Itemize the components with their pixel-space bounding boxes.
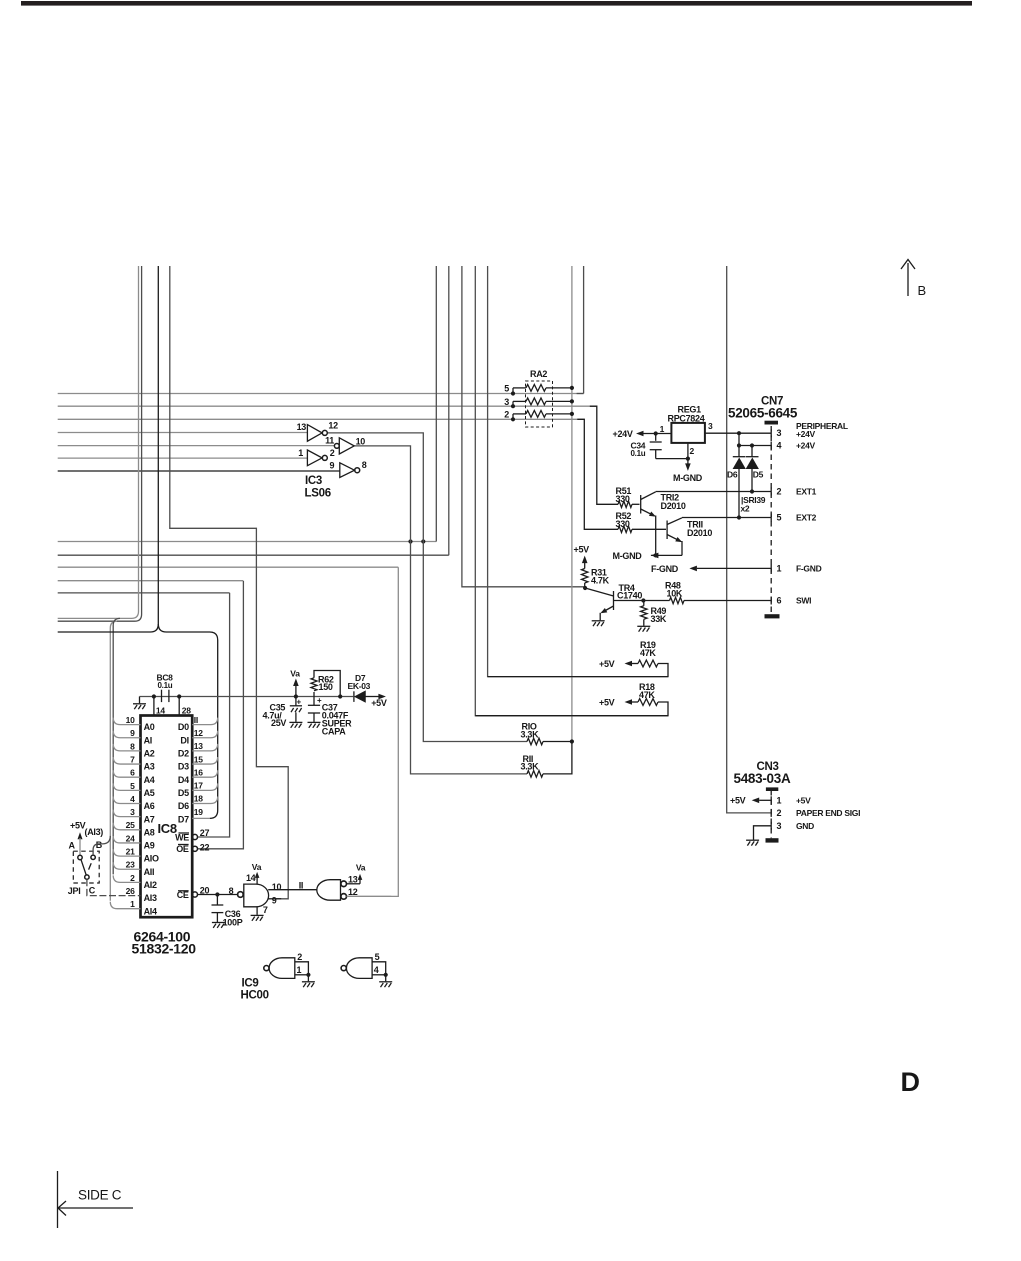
wire WE net vertical <box>197 593 229 837</box>
svg-text:11: 11 <box>325 435 334 445</box>
wire vertical x170 to corner y528 <box>170 266 288 899</box>
op-amp IC3 inverter A (pins 13-12) <box>307 425 322 442</box>
svg-text:6: 6 <box>777 596 782 606</box>
svg-text:7: 7 <box>263 905 268 915</box>
svg-text:II: II <box>194 715 198 725</box>
svg-text:2: 2 <box>777 808 782 818</box>
svg-text:16: 16 <box>194 767 203 777</box>
svg-text:5483-03A: 5483-03A <box>734 771 791 786</box>
resistor R31 4.7K <box>582 569 588 584</box>
svg-text:C: C <box>89 885 96 895</box>
svg-text:3: 3 <box>708 421 713 431</box>
wire JP1 C to IC8 pin 26 (A13) <box>87 879 141 895</box>
ground at BC8 <box>139 697 141 704</box>
diode D5 <box>751 446 753 457</box>
svg-text:A4: A4 <box>144 775 155 785</box>
TR4 emitter ground <box>599 613 601 621</box>
wire gate2 pin12 vertical <box>347 567 399 896</box>
svg-text:C1740: C1740 <box>617 591 642 601</box>
svg-text:F-GND: F-GND <box>651 564 679 574</box>
svg-text:D2: D2 <box>178 749 189 759</box>
svg-text:1: 1 <box>298 448 303 458</box>
svg-text:D2010: D2010 <box>661 501 686 511</box>
svg-text:18: 18 <box>194 794 203 804</box>
wire IC3 pin13 input wire <box>58 432 308 434</box>
wire node 3 input row <box>58 405 597 407</box>
svg-text:+24V: +24V <box>613 429 633 439</box>
capacitor C36 100P <box>216 895 218 905</box>
svg-text:RPC7824: RPC7824 <box>668 413 705 423</box>
wire address bus branch (gray) down to IC8 A14 <box>110 621 117 901</box>
svg-text:3: 3 <box>777 821 782 831</box>
svg-text:2: 2 <box>130 873 135 883</box>
CN7 pin 2 <box>770 488 772 496</box>
node B sheet reference arrow <box>907 263 909 296</box>
wire IC3 pin1 input wire <box>58 457 308 459</box>
wire node 5 input row <box>58 393 584 395</box>
svg-text:+24V: +24V <box>796 429 816 439</box>
svg-text:Va: Va <box>252 862 262 872</box>
svg-text:F-GND: F-GND <box>796 563 822 573</box>
svg-text:+5V: +5V <box>371 698 387 708</box>
svg-text:JPI: JPI <box>68 886 81 896</box>
svg-text:0.1u: 0.1u <box>631 449 646 458</box>
svg-text:GND: GND <box>796 821 814 831</box>
svg-text:5: 5 <box>130 781 135 791</box>
svg-text:D0: D0 <box>178 722 189 732</box>
CN3 pin 3 <box>770 822 772 830</box>
svg-text:Va: Va <box>356 862 366 872</box>
svg-text:D2010: D2010 <box>687 528 712 538</box>
svg-text:Va: Va <box>290 668 300 678</box>
svg-text:0.1u: 0.1u <box>158 681 173 690</box>
svg-text:2: 2 <box>297 952 302 962</box>
wire R48 to CN7 pin6 SWI <box>684 600 771 602</box>
wire REG1 pin3 to CN7 pin3 <box>705 432 771 434</box>
svg-text:12: 12 <box>194 728 203 738</box>
CN7 pin 3 <box>770 429 772 437</box>
svg-text:D6: D6 <box>727 470 738 480</box>
wire IC3 pin10 output to R11 feed <box>354 446 527 774</box>
svg-text:D3: D3 <box>178 762 189 772</box>
svg-text:HC00: HC00 <box>241 989 269 1001</box>
svg-text:3.3K: 3.3K <box>521 762 540 772</box>
svg-text:7: 7 <box>130 754 135 764</box>
wire R11 up to rail x572 <box>543 742 572 774</box>
svg-text:13: 13 <box>348 874 358 884</box>
wire +5V supply rail <box>140 696 354 698</box>
wire gate2 pin12 to vertical <box>347 895 392 897</box>
logic gate IC9 gate1 (pins 8,9,10) <box>238 892 244 898</box>
logic gate IC9 gate4 (pins 4,5) facing left <box>341 966 346 971</box>
wire TR12 emitter to M-GND <box>655 516 657 556</box>
svg-text:1: 1 <box>660 424 665 434</box>
svg-text:A2: A2 <box>144 749 155 759</box>
svg-text:28: 28 <box>182 705 191 715</box>
svg-text:+5V: +5V <box>574 545 590 555</box>
svg-text:4: 4 <box>777 441 782 451</box>
transistor TR11 D2C10 <box>666 521 668 540</box>
svg-text:+5V: +5V <box>599 698 615 708</box>
wire node 5 row corner up <box>577 393 584 395</box>
svg-text:8: 8 <box>130 741 135 751</box>
svg-text:9: 9 <box>272 896 277 906</box>
svg-text:22: 22 <box>200 842 210 852</box>
wire bus row to vertical x436 <box>58 541 437 543</box>
svg-text:13: 13 <box>297 422 307 432</box>
svg-text:3: 3 <box>130 807 135 817</box>
svg-text:150: 150 <box>319 682 333 692</box>
svg-text:II: II <box>299 880 303 890</box>
svg-text:2: 2 <box>330 448 335 458</box>
svg-text:13: 13 <box>194 741 203 751</box>
svg-text:IC9: IC9 <box>242 977 259 989</box>
svg-text:D5: D5 <box>753 470 764 480</box>
svg-text:AII: AII <box>144 867 155 877</box>
gate3 ground <box>307 975 309 982</box>
svg-text:D6: D6 <box>178 801 189 811</box>
svg-text:12: 12 <box>348 887 358 897</box>
CN7 pin 1 <box>770 564 772 572</box>
gate2 pin13 Va stub <box>347 883 361 885</box>
svg-text:5: 5 <box>375 952 380 962</box>
svg-text:14: 14 <box>246 873 256 883</box>
op-amp IC3 inverter C (pins 1-2) <box>307 450 322 466</box>
wire OE net vertical <box>197 581 243 849</box>
wire EXT1 row from TR12 collector <box>656 491 772 493</box>
wire vertical x475 from top to R18 row <box>475 266 668 716</box>
CN7 pin 4 <box>770 442 772 450</box>
svg-text:CE: CE <box>177 890 189 900</box>
svg-text:RA2: RA2 <box>530 369 547 379</box>
svg-text:3: 3 <box>777 428 782 438</box>
svg-text:25V: 25V <box>271 718 286 728</box>
CN3 pin3 ground <box>754 826 772 840</box>
svg-text:(AI3): (AI3) <box>85 827 104 837</box>
svg-text:1: 1 <box>777 795 782 805</box>
svg-text:8: 8 <box>362 460 367 470</box>
svg-text:10: 10 <box>356 436 366 446</box>
svg-text:EK-03: EK-03 <box>348 681 371 691</box>
wire node 2 row corner down to R52 <box>577 419 618 529</box>
wire long vertical x727 to CN3 pin2 <box>727 266 772 813</box>
wire bus row arc to vertical x142 <box>58 266 142 621</box>
wire bus row to gate2 pin12 vertical <box>58 566 399 568</box>
CN3 pin 2 <box>770 809 772 817</box>
wire TR11 emitter down to M-GND row <box>681 541 683 555</box>
svg-text:M-GND: M-GND <box>613 551 643 561</box>
svg-text:x2: x2 <box>741 504 750 514</box>
svg-text:B: B <box>918 283 926 298</box>
svg-text:51832-120: 51832-120 <box>132 941 197 957</box>
svg-text:5: 5 <box>777 513 782 523</box>
svg-text:A8: A8 <box>144 827 155 837</box>
svg-text:4.7K: 4.7K <box>591 575 610 585</box>
IC8 pin 28 stub <box>178 697 180 716</box>
svg-text:1: 1 <box>297 965 302 975</box>
wire vertical x436 from top <box>435 266 437 542</box>
svg-text:SIDE C: SIDE C <box>78 1188 122 1203</box>
wire node 3 row corner down to R51 <box>590 406 618 504</box>
diode D6 <box>738 433 740 456</box>
node SIDE C reference arrow <box>57 1171 59 1228</box>
svg-text:A3: A3 <box>144 762 155 772</box>
svg-text:+5V: +5V <box>599 659 615 669</box>
svg-text:1: 1 <box>777 563 782 573</box>
svg-text:25: 25 <box>126 820 135 830</box>
svg-text:10: 10 <box>126 715 135 725</box>
wire CN7 pin4 row <box>739 445 771 447</box>
wire IC3 pin11 input wire <box>58 445 335 447</box>
svg-text:21: 21 <box>126 847 135 857</box>
IC8 pin 14 stub <box>153 697 155 716</box>
svg-text:EXT2: EXT2 <box>796 513 817 523</box>
svg-text:+5V: +5V <box>730 795 746 805</box>
wire +24V to REG1 pin1 <box>644 433 672 435</box>
svg-text:27: 27 <box>200 828 210 838</box>
wire bus row arc to vertical x138 <box>58 266 139 618</box>
svg-text:DI: DI <box>180 735 188 745</box>
wire bus row to vertical x449 <box>58 554 449 556</box>
wire REG1 pin2 down to M-GND <box>687 443 689 459</box>
gate4 ground <box>385 975 387 982</box>
svg-text:17: 17 <box>194 781 203 791</box>
svg-text:+24V: +24V <box>796 441 816 451</box>
svg-text:2: 2 <box>777 487 782 497</box>
transistor TR12 D2010 <box>640 495 642 514</box>
wire IC3 pin9 input wire <box>58 470 340 472</box>
svg-text:A0: A0 <box>144 722 155 732</box>
svg-text:AI2: AI2 <box>144 880 157 890</box>
gate1 pin7 ground stub <box>256 907 258 915</box>
svg-text:3: 3 <box>504 397 509 407</box>
wire vertical x488 from top to R19 row <box>488 266 668 677</box>
svg-text:A: A <box>69 841 76 851</box>
logic gate IC9 gate2 (pins 11,12,13) facing left <box>317 880 341 901</box>
svg-text:D7: D7 <box>178 814 189 824</box>
wire bus row to OE vertical <box>58 580 243 582</box>
svg-text:5: 5 <box>504 384 509 394</box>
wire bus row to WE vertical <box>58 592 230 594</box>
svg-text:100P: 100P <box>223 918 243 928</box>
svg-text:IC8: IC8 <box>158 821 177 836</box>
wire address bus branch (dark) down to IC8 A12 <box>113 618 120 874</box>
CN7 pin 6 <box>770 597 772 605</box>
svg-text:23: 23 <box>126 860 135 870</box>
svg-text:A9: A9 <box>144 841 155 851</box>
svg-text:4: 4 <box>130 794 135 804</box>
svg-text:AIO: AIO <box>144 854 159 864</box>
svg-text:52065-6645: 52065-6645 <box>728 406 798 421</box>
svg-text:D: D <box>901 1067 920 1097</box>
wire IC3 pin12 output to R10 feed <box>327 433 527 742</box>
CN3 pin 1 <box>770 796 772 804</box>
svg-text:26: 26 <box>126 886 135 896</box>
wire vertical x572 pull-up rail <box>571 266 573 742</box>
wire thick data bus row, split to vertical x158 and D-bus <box>58 266 159 632</box>
wire JP1 B to address bus <box>93 836 110 855</box>
wire C34 to REG1 pin2 node <box>656 458 688 460</box>
svg-text:24: 24 <box>126 833 135 843</box>
svg-text:19: 19 <box>194 807 203 817</box>
svg-text:CAPA: CAPA <box>322 727 346 737</box>
svg-text:A6: A6 <box>144 801 155 811</box>
svg-text:A7: A7 <box>144 814 155 824</box>
memory IC8 6264-100 / 51832-120 <box>141 716 193 918</box>
op-amp IC3 inverter D (pins 9-8) <box>340 463 355 478</box>
svg-text:PAPER END SIGI: PAPER END SIGI <box>796 808 860 818</box>
svg-text:SWI: SWI <box>796 596 811 606</box>
svg-text:+5V: +5V <box>70 820 86 830</box>
svg-text:B: B <box>96 840 103 850</box>
svg-text:8: 8 <box>229 886 234 896</box>
svg-text:AI: AI <box>144 735 152 745</box>
CN7 pin 5 <box>770 514 772 522</box>
wire vertical x462 from top to R31 feed <box>462 266 585 587</box>
wire CE to gate1 input <box>197 894 237 896</box>
svg-text:IC3: IC3 <box>305 475 322 487</box>
wire vertical x584 from node 5 row to top <box>583 266 585 394</box>
svg-text:1: 1 <box>130 899 135 909</box>
svg-text:9: 9 <box>329 461 334 471</box>
svg-text:47K: 47K <box>640 648 656 658</box>
svg-text:6: 6 <box>130 768 135 778</box>
svg-text:A5: A5 <box>144 788 155 798</box>
svg-text:OE: OE <box>176 844 189 854</box>
svg-text:+5V: +5V <box>796 795 811 805</box>
logic gate IC9 gate3 (pins 1,2) facing left <box>264 966 269 971</box>
wire EXT2 row from TR11 collector <box>682 517 771 519</box>
svg-text:12: 12 <box>328 421 338 431</box>
wire vertical x449 from top <box>448 266 450 555</box>
svg-text:2: 2 <box>690 446 695 456</box>
svg-text:D4: D4 <box>178 775 189 785</box>
svg-text:15: 15 <box>194 754 203 764</box>
svg-text:4: 4 <box>374 965 379 975</box>
svg-text:M-GND: M-GND <box>673 473 703 483</box>
svg-text:LS06: LS06 <box>305 488 331 500</box>
svg-text:33K: 33K <box>651 614 667 624</box>
svg-text:9: 9 <box>130 728 135 738</box>
svg-text:2: 2 <box>504 410 509 420</box>
svg-text:WE: WE <box>175 832 189 842</box>
svg-text:3.3K: 3.3K <box>521 729 540 739</box>
svg-text:AI3: AI3 <box>144 893 157 903</box>
svg-text:AI4: AI4 <box>144 906 157 916</box>
resistor R49 33K <box>643 601 645 606</box>
svg-text:14: 14 <box>156 705 165 715</box>
svg-text:EXT1: EXT1 <box>796 487 817 497</box>
wire node 2 input row <box>58 418 585 420</box>
svg-text:D5: D5 <box>178 788 189 798</box>
op-amp IC3 inverter B (pins 11-10) <box>339 438 354 454</box>
